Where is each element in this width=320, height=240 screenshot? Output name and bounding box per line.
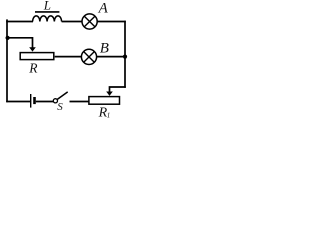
wire: left vertical (x=7) <box>6 19 8 102</box>
wire: right wire down to corner, then left to slider of R1 <box>110 87 126 92</box>
rheostat R1 box <box>89 97 120 105</box>
slider arrow of rheostat R <box>29 47 36 51</box>
switch S lever <box>57 92 67 100</box>
svg-text:S: S <box>57 101 63 113</box>
wire: bottom left segment <box>6 101 30 103</box>
junction dot B (right node) <box>123 55 127 59</box>
rheostat R box <box>20 53 54 60</box>
wire: R box to lamp B <box>55 56 82 58</box>
inductor L coil (4 humps) <box>33 16 62 22</box>
lamp A <box>82 14 97 29</box>
wire: top horizontal left segment to coil <box>6 21 33 23</box>
wire: battery to switch <box>36 101 53 103</box>
wire: lamp B to right wire <box>97 56 125 58</box>
wire: coil to lamp A <box>62 21 83 23</box>
wire: lamp A to top-right corner <box>97 21 126 23</box>
lamp B <box>81 49 96 64</box>
svg-text:1: 1 <box>107 112 111 120</box>
battery: long plate (+) <box>30 94 32 108</box>
wire: switch to R1 box <box>70 101 90 103</box>
svg-text:B: B <box>100 40 109 56</box>
wire: right vertical (x=125) <box>124 21 126 88</box>
svg-text:L: L <box>43 0 51 12</box>
battery: short thick plate (-) <box>33 97 36 104</box>
switch S pivot circle <box>53 99 57 103</box>
svg-text:A: A <box>98 1 109 17</box>
inductor core line <box>35 11 59 13</box>
slider arrow of rheostat R1 <box>106 92 113 96</box>
wire: branch from left node to slider <box>7 38 33 48</box>
svg-text:R: R <box>28 60 38 75</box>
junction dot A (left, node) <box>6 36 10 40</box>
